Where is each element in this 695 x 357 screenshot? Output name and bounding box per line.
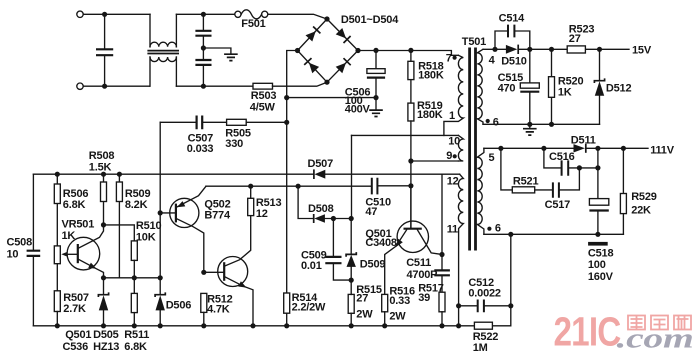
resistor R519 [408, 100, 443, 161]
resistor R517 [418, 282, 445, 325]
capacitor C518 electrolytic [588, 148, 614, 283]
resistor R513 [248, 186, 282, 220]
svg-text:6: 6 [493, 116, 499, 128]
node [549, 122, 554, 127]
diode D510 [501, 45, 527, 68]
transistor Q503 [204, 216, 253, 326]
svg-text:R521: R521 [513, 176, 539, 188]
wire DC minus rail [287, 97, 376, 99]
svg-text:100: 100 [588, 259, 606, 271]
capacitor C511 [406, 255, 450, 293]
wire R519 junction down to C510 node [410, 161, 412, 229]
node [527, 122, 532, 127]
capacitor C507 [160, 116, 226, 156]
svg-text:10: 10 [7, 248, 19, 260]
capacitor Y upper [195, 14, 211, 59]
node [331, 216, 336, 221]
resistor R510 [131, 220, 161, 278]
resistor R503 [250, 82, 327, 113]
node [201, 84, 206, 89]
watermark 21IC logo [554, 309, 694, 355]
node [55, 172, 60, 177]
svg-text:0.33: 0.33 [389, 295, 410, 307]
ground bar 111V return [588, 242, 608, 246]
resistor R521 [501, 148, 552, 193]
resistor R523 [567, 23, 594, 53]
node [201, 45, 206, 50]
node [201, 270, 206, 275]
capacitor C508 [7, 237, 41, 261]
wire middle rail [104, 277, 161, 279]
svg-text:R507: R507 [63, 292, 89, 304]
node [541, 146, 546, 151]
input terminal top [77, 11, 83, 17]
svg-text:Q501: Q501 [65, 329, 91, 341]
svg-text:5: 5 [489, 152, 495, 164]
wire long drive rail [33, 173, 459, 175]
node bottom rail junctions [55, 323, 462, 328]
svg-text:F501: F501 [241, 18, 265, 30]
svg-text:D510: D510 [501, 55, 527, 67]
capacitor C509 [301, 219, 351, 281]
wire pin12 vertical [441, 174, 443, 254]
svg-text:27: 27 [569, 33, 581, 45]
wire DC minus vertical [287, 51, 298, 294]
svg-text:27: 27 [356, 293, 368, 305]
svg-text:21IC: 21IC [554, 309, 621, 355]
resistor R520 [549, 49, 584, 124]
resistor R508 [89, 150, 115, 225]
diode D507 [308, 158, 334, 179]
node [527, 47, 532, 52]
node [101, 222, 106, 227]
node [595, 232, 600, 237]
wire pin9 row [411, 160, 459, 162]
node [621, 146, 626, 151]
node [102, 84, 107, 89]
svg-text:8.2K: 8.2K [125, 199, 148, 211]
svg-text:D505: D505 [93, 329, 119, 341]
capacitor C515 electrolytic [498, 49, 540, 124]
input terminal bottom [77, 83, 83, 89]
node [117, 172, 122, 177]
svg-text:C517: C517 [545, 199, 571, 211]
diode D508 [298, 186, 351, 223]
wire pin1-pin10 link [352, 134, 459, 136]
transformer T501 [444, 36, 501, 326]
wire 15V ground rail [483, 123, 600, 125]
svg-text:39: 39 [418, 292, 430, 304]
svg-text:2W: 2W [389, 310, 406, 322]
node [439, 252, 444, 257]
wire pin5 111V row [484, 147, 648, 149]
resistor R507 [54, 291, 89, 326]
svg-text:6.8K: 6.8K [124, 341, 147, 353]
svg-text:10: 10 [448, 136, 460, 148]
svg-text:180K: 180K [417, 109, 443, 121]
svg-text:C514: C514 [499, 12, 526, 24]
node [101, 172, 106, 177]
node [408, 48, 413, 53]
svg-text:12: 12 [256, 208, 268, 220]
svg-text:VR501: VR501 [62, 218, 95, 230]
node [101, 275, 106, 280]
svg-text:D509: D509 [360, 259, 386, 271]
node [577, 165, 582, 170]
zener diode D509 [346, 219, 385, 281]
svg-text:400V: 400V [345, 104, 371, 116]
svg-text:160V: 160V [588, 271, 614, 283]
svg-text:C511: C511 [406, 257, 431, 269]
node [201, 12, 206, 17]
svg-text:4.7K: 4.7K [207, 303, 230, 315]
ground [224, 54, 238, 60]
node [349, 278, 354, 283]
svg-text:1M: 1M [473, 342, 488, 354]
svg-text:0.01: 0.01 [301, 260, 322, 272]
svg-text:C518: C518 [588, 247, 614, 259]
transistor Q501 C3408 [365, 186, 442, 295]
node [408, 158, 413, 163]
svg-text:330: 330 [225, 138, 243, 150]
svg-text:D507: D507 [308, 158, 334, 170]
svg-text:111V: 111V [650, 145, 675, 157]
svg-text:0.033: 0.033 [187, 143, 214, 155]
primary winding 7-1 [444, 55, 463, 135]
svg-text:15V: 15V [632, 45, 652, 57]
svg-text:C3408: C3408 [365, 237, 396, 249]
transistor Q502 B774 [160, 186, 231, 272]
svg-text:D511: D511 [571, 134, 596, 146]
svg-text:6: 6 [495, 223, 501, 235]
svg-text:R508: R508 [89, 150, 115, 162]
svg-text:R510: R510 [136, 220, 162, 232]
capacitor C514 [495, 12, 530, 49]
svg-text:D512: D512 [606, 83, 632, 95]
svg-text:6.8K: 6.8K [63, 199, 86, 211]
node [132, 275, 137, 280]
zener diode D512 [594, 49, 631, 124]
svg-text:D501~D504: D501~D504 [341, 14, 399, 26]
capacitor Y lower [195, 60, 211, 86]
svg-text:180K: 180K [418, 70, 444, 82]
wire to ground [203, 48, 231, 53]
resistor R511 [124, 278, 149, 353]
secondary winding 4-6 [477, 49, 483, 124]
resistor R515 [348, 280, 382, 326]
node [158, 275, 163, 280]
node [284, 120, 289, 125]
potentiometer VR501 [54, 218, 94, 290]
capacitor C516 [544, 148, 598, 175]
resistor R516 [382, 285, 415, 326]
node [595, 146, 600, 151]
svg-text:470: 470 [498, 82, 516, 94]
secondary winding 5-6 [477, 148, 484, 234]
svg-text:R503: R503 [251, 90, 277, 102]
node [248, 184, 253, 189]
wire pin1 vertical to C510 node [351, 135, 353, 218]
node [492, 47, 497, 52]
diode D511 [571, 134, 596, 152]
svg-text:R511: R511 [124, 329, 149, 341]
svg-text:22K: 22K [631, 204, 651, 216]
node [498, 146, 503, 151]
svg-text:C516: C516 [549, 151, 575, 163]
node [595, 165, 600, 170]
svg-text:D506: D506 [166, 299, 192, 311]
svg-text:4/5W: 4/5W [250, 101, 276, 113]
wire bottom rail left [83, 85, 149, 87]
resistor R529 [620, 148, 656, 234]
node [408, 183, 413, 188]
wire bottom rail right of choke [176, 85, 253, 87]
svg-text:11: 11 [447, 223, 458, 235]
primary winding 10-9 [458, 135, 463, 161]
svg-text:R506: R506 [63, 188, 89, 200]
resistor R514 [284, 292, 326, 326]
node [284, 95, 289, 100]
node [296, 184, 301, 189]
node [508, 232, 513, 237]
svg-text:HZ13: HZ13 [93, 341, 119, 353]
bridge rectifier D501~D504 [295, 14, 399, 85]
node [158, 210, 163, 215]
node [597, 47, 602, 52]
svg-text:4700P: 4700P [407, 269, 438, 281]
svg-text:2.7K: 2.7K [63, 303, 86, 315]
core [470, 48, 476, 251]
svg-text:7: 7 [446, 53, 452, 65]
svg-text:1K: 1K [558, 86, 572, 98]
wire DC plus rail [358, 51, 458, 56]
primary winding 12-11 [458, 174, 463, 326]
svg-text:2W: 2W [356, 308, 373, 320]
wire pin4 15V row [483, 48, 629, 50]
resistor R512 [201, 293, 233, 325]
svg-text:12: 12 [447, 175, 459, 187]
resistor R518 [408, 50, 444, 103]
zener diode D505 [93, 278, 119, 353]
capacitor C510 [365, 178, 411, 218]
fuse F501 [235, 10, 268, 30]
svg-text:47: 47 [365, 206, 377, 218]
ground [529, 124, 531, 128]
transistor Q501 C536 [63, 225, 104, 353]
inductor L common-mode choke [147, 14, 179, 86]
wire R508 to R510 [104, 225, 135, 241]
ground [369, 110, 383, 116]
capacitor C512 [456, 277, 513, 312]
node [102, 12, 107, 17]
resistor R522 [473, 322, 499, 354]
wire control vertical [159, 122, 161, 277]
node [373, 48, 378, 53]
svg-text:2.2/2W: 2.2/2W [292, 302, 326, 314]
svg-text:1.5K: 1.5K [89, 162, 112, 174]
wire pin6 111V return row [484, 233, 624, 235]
svg-text:R509: R509 [125, 188, 151, 200]
wire left rail [32, 174, 34, 326]
svg-text:D508: D508 [308, 203, 334, 215]
svg-text:C508: C508 [7, 237, 33, 249]
svg-text:10K: 10K [136, 232, 156, 244]
svg-text:1: 1 [449, 110, 455, 122]
capacitor X line filter [96, 14, 113, 86]
capacitor C517 [545, 168, 580, 211]
wire bottom rail [33, 234, 510, 325]
wire top rail left [83, 13, 234, 15]
capacitor C506 electrolytic [345, 50, 385, 115]
wire Q502 emitter rail [206, 185, 371, 187]
svg-text:T501: T501 [462, 36, 486, 48]
svg-text:0.0022: 0.0022 [468, 288, 501, 300]
zener diode D506 [155, 278, 191, 326]
svg-text:C536: C536 [63, 341, 89, 353]
svg-text:9: 9 [446, 150, 452, 162]
resistor R506 [54, 174, 88, 246]
wire top rail right of fuse [268, 14, 327, 19]
svg-text:B774: B774 [204, 210, 231, 222]
node [549, 47, 554, 52]
svg-text:R529: R529 [631, 191, 657, 203]
resistor R509 [116, 174, 150, 278]
node [349, 216, 354, 221]
resistor R505 [225, 119, 286, 150]
